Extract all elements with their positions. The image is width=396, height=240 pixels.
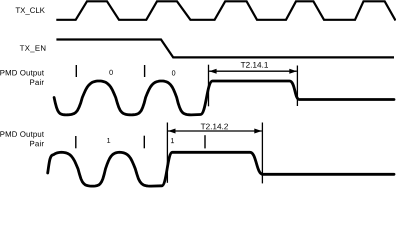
node bit label 0 second (172, 70, 175, 75)
label PMD Output (row 4) (0, 131, 44, 138)
label T2.14.1 (241, 62, 268, 68)
node T2.14.2 measurement line left (166, 123, 168, 183)
label TX_EN (20, 45, 46, 52)
wire T2.14.1 dimension arrow (209, 70, 297, 72)
wire TX_EN waveform (56, 40, 394, 58)
wire T2.14.2 dimension arrow (168, 130, 262, 132)
label TX_CLK (16, 7, 45, 14)
label Pair (row 3) (30, 79, 44, 85)
node bit-cell tick row4 b (143, 136, 145, 149)
node T2.14.2 measurement line right (261, 123, 263, 184)
node bit-cell tick row4 a (75, 136, 77, 148)
node T2.14.1 measurement line left (208, 65, 210, 107)
node bit-cell tick row3 b (144, 65, 146, 77)
wire TX_CLK waveform (56, 1, 395, 20)
node bit label 1 first (107, 138, 110, 143)
label Pair (row 4) (30, 141, 44, 147)
label PMD Output (row 3) (0, 70, 44, 77)
node bit label 0 first (109, 70, 112, 75)
wire PMD Output Pair waveform row4 last bit 1 (48, 152, 394, 186)
node T2.14.1 measurement line right (296, 66, 298, 107)
node bit-cell tick row3 a (75, 65, 77, 77)
wire PMD Output Pair waveform row3 last bit 0 (54, 81, 394, 115)
label T2.14.2 (201, 124, 228, 130)
node bit-cell tick row4 c (204, 135, 206, 148)
node bit label 1 second (171, 138, 174, 143)
